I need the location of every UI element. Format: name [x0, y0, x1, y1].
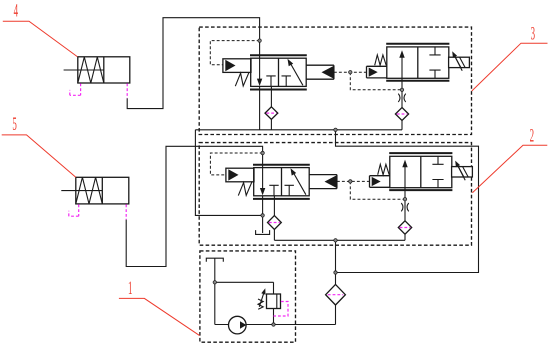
wire supply rail of box 3: [195, 129, 402, 131]
label 1 leader line: [119, 298, 200, 335]
valve 2A bottom plate: [253, 198, 310, 200]
wire below filter F3: [270, 119, 272, 130]
filter F1 under throttle 2: [398, 221, 411, 234]
valve 3B blocked port T symbols: [429, 47, 440, 55]
pilot line valve 3A to 3B (dashed): [334, 71, 367, 73]
valve 3A top plate: [250, 54, 307, 56]
valve 2B top plate: [389, 152, 452, 154]
valve 3B top plate: [386, 43, 449, 45]
tank symbol in box 1: [206, 258, 223, 262]
valve 2A flow arrow down: [262, 168, 264, 190]
wire pump outlet bottom rail: [215, 324, 336, 326]
valve 3B left pilot actuator: [367, 66, 387, 78]
wire relief valve column: [273, 282, 275, 324]
valve 2B bottom plate: [389, 189, 452, 191]
valve 3B return spring: [375, 55, 387, 65]
valve 2A return spring: [238, 182, 252, 195]
actuator 5 (spring-return): [61, 177, 129, 204]
wire pump top branch: [215, 281, 274, 283]
wire supply rail of box 2: [274, 239, 405, 241]
svg-text:2: 2: [530, 126, 534, 146]
svg-text:5: 5: [12, 115, 16, 135]
label 3 leader line: [472, 43, 548, 91]
valve 2B body: [390, 156, 452, 187]
label 4 leader line: [3, 21, 78, 56]
dashed enclosure box 1 (pump unit): [200, 251, 296, 342]
svg-text:4: 4: [14, 1, 19, 21]
valve 2A body: [254, 168, 310, 196]
valve 3A blocked port T symbols: [266, 76, 275, 87]
junction node valve 2A pilot tap: [261, 151, 264, 154]
valve 2B adjustment arrow: [457, 164, 465, 181]
filter F2 under valve 2A: [268, 216, 282, 230]
valve 2A diagonal flow arrow: [293, 172, 306, 194]
valve 3A flow arrow down: [259, 58, 261, 80]
valve 3B body: [387, 47, 449, 78]
wire below filter F1: [404, 234, 406, 240]
dashed enclosure box 3: [199, 27, 471, 134]
throttle valve under 2B: [401, 203, 408, 211]
label 5 leader line: [2, 135, 76, 177]
junction node between pilots box 3: [349, 71, 352, 74]
valve 3B adjustment arrow: [454, 54, 462, 71]
pilot line valve 2A to 2B (dashed): [337, 180, 370, 182]
valve 2B blocked port T symbols: [432, 156, 443, 164]
wire below filter F2: [273, 229, 275, 240]
pump (circle with flow triangle): [229, 316, 247, 334]
junction node supply rail box 3: [334, 128, 337, 131]
junction node throttle line box 3: [400, 88, 403, 91]
relief valve pilot drain (magenta): [274, 302, 289, 317]
valve 2A (pilot operated directional valve): [226, 165, 337, 199]
valve 2B left pilot actuator: [370, 176, 390, 188]
filter F3 under valve 3A: [265, 107, 278, 120]
valve 2B return spring: [378, 164, 390, 174]
valve 3A diagonal flow arrow: [290, 63, 303, 85]
valve 3A (pilot operated directional valve): [223, 55, 334, 89]
wire pump suction from tank: [214, 258, 216, 324]
actuator 4 (spring-return): [64, 57, 130, 83]
junction node tank stem: [213, 281, 216, 284]
valve 3A left pilot actuator: [223, 59, 251, 73]
wire valve 2B bottom port: [404, 188, 406, 221]
valve 2A blocked port T symbols: [269, 185, 278, 196]
wire supply branch to box 2 rail: [335, 240, 337, 272]
wire from actuator 4 to valve 3A top port: [127, 18, 259, 109]
wire pump filter column: [335, 273, 337, 325]
valve 3B bottom plate: [386, 80, 449, 82]
throttle valve under 3B: [398, 94, 405, 102]
valve 3A bottom plate: [250, 89, 307, 91]
wire valve 2A filter port: [273, 196, 275, 216]
svg-text:3: 3: [531, 24, 535, 44]
valve 3A body: [251, 58, 307, 86]
valve 2B proportional solenoid: [452, 167, 473, 177]
wire below filter F4: [401, 121, 403, 130]
wire box-3 return to tank line: [195, 130, 262, 216]
valve 3A return spring: [235, 73, 249, 86]
tank symbol under valve 2A: [256, 230, 270, 234]
junction node valve 3A pilot tap: [258, 39, 261, 42]
valve 2A top plate: [253, 164, 310, 166]
valve 2A right pilot actuator: [309, 175, 337, 189]
dashed enclosure box 2: [199, 143, 471, 246]
junction node throttle line box 2: [403, 198, 406, 201]
drain line actuator 5 (magenta): [69, 204, 126, 219]
wire from actuator 5 to valve 2A top port: [126, 146, 262, 266]
drain line actuator 4 (magenta): [70, 84, 127, 99]
valve 3B proportional solenoid: [449, 57, 470, 67]
pilot branch down to throttle 2 line (dashed): [350, 181, 405, 199]
valve 3B (pilot operated valve with proportional solenoid): [367, 44, 470, 81]
wire supply loop right side: [336, 130, 479, 273]
junction node between pilots box 2: [349, 180, 352, 183]
pilot tap line valve 3A (dashed): [210, 41, 259, 65]
junction node filter top branch: [334, 271, 337, 274]
valve 2B (pilot operated valve with proportional solenoid): [370, 153, 473, 190]
pilot tap line valve 2A (dashed): [210, 153, 262, 175]
relief valve: [258, 288, 281, 309]
junction node relief outlet: [272, 323, 275, 326]
wire valve 3B bottom port: [401, 78, 403, 107]
junction node return join: [261, 214, 264, 217]
filter F4 under throttle: [395, 108, 408, 121]
valve 2B flow arrow up: [404, 166, 406, 188]
label 2 leader line: [472, 145, 547, 193]
svg-text:1: 1: [128, 279, 132, 299]
valve 2A left pilot actuator: [226, 168, 254, 182]
wire valve 3A filter port: [270, 86, 272, 107]
junction node supply rail box 2: [334, 239, 337, 242]
pilot branch down to throttle line (dashed): [350, 72, 402, 90]
wire valve 2A tank port: [262, 196, 264, 233]
filter on pump line: [326, 284, 346, 305]
valve 3B flow arrow up: [401, 57, 403, 79]
wire valve 3A left bottom port: [259, 86, 261, 129]
valve 3A right pilot actuator: [306, 65, 334, 79]
